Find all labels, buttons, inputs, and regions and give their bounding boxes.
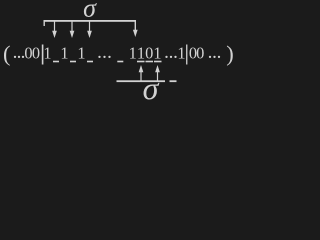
svg-text:1: 1 bbox=[77, 43, 85, 62]
bottom bracket dash bbox=[170, 80, 177, 82]
blank underscore c bbox=[87, 61, 93, 63]
blank underscore a bbox=[53, 61, 59, 63]
blank underscore d bbox=[117, 61, 123, 63]
dots group left outer ... bbox=[14, 56, 24, 58]
down arrow 1 bbox=[52, 21, 57, 38]
up arrow 1 bbox=[139, 65, 144, 81]
dots group right outer ... bbox=[209, 56, 220, 58]
top bracket line bbox=[44, 20, 137, 22]
svg-text:1: 1 bbox=[129, 43, 137, 62]
top bracket right elbow arrow bbox=[133, 20, 138, 37]
underline 2 bbox=[146, 61, 154, 63]
svg-text:1: 1 bbox=[60, 43, 68, 62]
bottom bracket line bbox=[117, 80, 166, 82]
svg-text:0: 0 bbox=[145, 43, 153, 62]
svg-text:σ: σ bbox=[143, 70, 160, 102]
svg-text:1: 1 bbox=[137, 43, 145, 62]
down arrow 2 bbox=[70, 21, 75, 38]
svg-text:0: 0 bbox=[32, 43, 40, 62]
svg-text:0: 0 bbox=[196, 43, 204, 62]
svg-text:): ) bbox=[226, 41, 234, 66]
vertical bar right bbox=[186, 45, 187, 65]
vertical bar left bbox=[42, 45, 44, 65]
dots group mid ... bbox=[98, 56, 110, 58]
svg-text:σ: σ bbox=[83, 0, 97, 23]
svg-text:1: 1 bbox=[177, 43, 185, 62]
underline 3 bbox=[154, 61, 162, 63]
svg-text:(: ( bbox=[3, 41, 11, 66]
dots group right inner ... bbox=[165, 56, 176, 58]
svg-text:1: 1 bbox=[153, 43, 161, 62]
down arrow 3 bbox=[87, 21, 92, 38]
up arrow 2 bbox=[155, 65, 160, 81]
top bracket left tick bbox=[44, 20, 45, 26]
underline 1 bbox=[137, 61, 145, 63]
blank underscore b bbox=[70, 61, 76, 63]
svg-text:1: 1 bbox=[43, 43, 51, 62]
